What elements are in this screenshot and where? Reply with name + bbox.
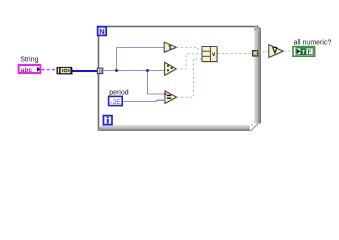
wire element u8 (main horizontal) bbox=[103, 70, 164, 72]
for loop top-right corner wedge bbox=[254, 25, 261, 30]
svg-text:F: F bbox=[308, 50, 312, 56]
tunnel output (indexing, green) bbox=[252, 51, 258, 57]
node And Array Elements bbox=[269, 45, 284, 59]
wire boolean to indicator bbox=[283, 50, 292, 52]
coercion dot (red) bbox=[164, 93, 166, 95]
boolean indicator all numeric? bbox=[293, 47, 315, 57]
for loop left border bbox=[97, 25, 100, 128]
wire boolean array tunnel to AND node bbox=[258, 51, 269, 53]
node String To Byte Array bbox=[57, 67, 74, 75]
junction dot 2 bbox=[146, 69, 149, 72]
numeric constant period x2E bbox=[109, 96, 123, 106]
i iteration terminal bbox=[103, 116, 112, 125]
wire period constant to Equal bbox=[123, 100, 165, 101]
wire byte array (thick blue) bbox=[72, 70, 97, 72]
wire branch to Decimal Digit check (up) bbox=[117, 47, 165, 70]
svg-text:2E: 2E bbox=[113, 99, 121, 106]
wire branch to Equal (down) bbox=[148, 71, 165, 95]
svg-text:String: String bbox=[20, 57, 38, 64]
for loop bottom-left corner wedge bbox=[98, 127, 102, 131]
wire boolean Equal to compound input 3 bbox=[177, 59, 203, 97]
svg-text:abc: abc bbox=[21, 67, 33, 74]
for loop top border bbox=[97, 25, 257, 28]
comparison node T1 (digit test) bbox=[164, 42, 177, 53]
svg-text:N: N bbox=[99, 27, 104, 36]
compound arithmetic OR node bbox=[202, 47, 218, 63]
svg-text:all numeric?: all numeric? bbox=[294, 40, 332, 47]
svg-text:period: period bbox=[109, 90, 129, 97]
wire boolean compound to output tunnel bbox=[218, 52, 253, 54]
for loop right border bbox=[254, 28, 261, 123]
wire boolean T2 to compound input 2 bbox=[176, 54, 202, 69]
comparison node Equal? bbox=[165, 91, 178, 104]
string control String bbox=[19, 65, 41, 74]
junction dot 1 bbox=[115, 69, 118, 72]
svg-text:T: T bbox=[302, 50, 306, 56]
for loop bottom border bbox=[100, 125, 250, 131]
for loop corner fold mark bbox=[250, 123, 258, 131]
N count terminal bbox=[98, 27, 107, 36]
comparison node T2 (digit test 2) bbox=[165, 62, 177, 76]
wire boolean T1 to compound input 1 bbox=[176, 47, 202, 49]
wire string (dashed magenta) bbox=[42, 69, 57, 71]
tunnel input (auto-indexing) bbox=[97, 68, 103, 74]
